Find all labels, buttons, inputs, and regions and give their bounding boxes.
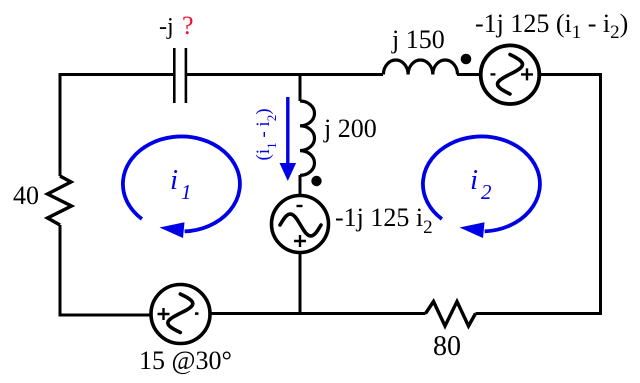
svg-text:i: i	[170, 164, 178, 196]
branch current arrow (i1 - i2)	[280, 97, 297, 181]
mesh current loop i2	[423, 136, 540, 238]
wire top-right segment (inductor to source)	[457, 73, 482, 76]
svg-text:1: 1	[181, 180, 192, 204]
svg-text:-j: -j	[159, 14, 174, 40]
wire bottom-right segment	[476, 312, 603, 315]
wire top-middle segment	[187, 73, 383, 76]
inductor j200	[300, 101, 315, 175]
svg-text:j 150: j 150	[391, 25, 445, 54]
wire middle branch bottom	[299, 252, 302, 316]
svg-text:2: 2	[481, 180, 492, 204]
source V1 15@30	[151, 285, 210, 344]
wire middle branch top	[299, 73, 302, 101]
mesh current loop i1	[123, 136, 240, 238]
wire left side lower	[60, 225, 151, 315]
svg-text:j 200: j 200	[323, 114, 377, 143]
capacitor -j ?	[174, 48, 186, 103]
resistor 80	[426, 302, 476, 327]
wire bottom-left of resistor 80	[211, 312, 426, 315]
svg-text:40: 40	[13, 181, 39, 210]
svg-text:-1j 125 (i1 - i2): -1j 125 (i1 - i2)	[475, 9, 628, 43]
wire left side upper	[59, 73, 62, 176]
coupling dot (middle)	[311, 176, 321, 186]
wire top-right corner segment	[540, 75, 601, 314]
svg-text:i: i	[470, 164, 478, 196]
svg-text:15 @30°: 15 @30°	[139, 346, 232, 375]
inductor j150	[383, 60, 457, 75]
svg-text:80: 80	[433, 331, 461, 362]
wire middle branch between coil and source	[299, 175, 302, 197]
coupling dot (top)	[461, 54, 472, 65]
resistor 40	[48, 176, 72, 225]
wire top-left segment	[60, 73, 173, 76]
source U2 -1j 125 i2 dependent source	[272, 196, 329, 253]
svg-text:?: ?	[182, 11, 194, 40]
source U1 -1j 125 (i1 - i2) dependent source	[481, 45, 540, 104]
